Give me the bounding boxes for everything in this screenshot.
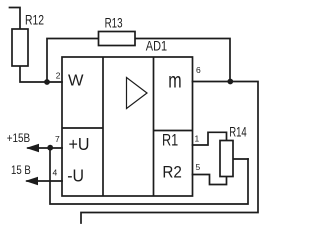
wire R12 bottom lead to node A bbox=[20, 66, 47, 82]
svg-text:-U: -U bbox=[67, 166, 84, 186]
wire +15V supply to pin 7 bbox=[28, 147, 62, 149]
divider W / +U box bbox=[62, 127, 103, 129]
svg-text:5: 5 bbox=[196, 162, 201, 172]
wire +15V node down and along bottom to R14 wiper bbox=[50, 148, 248, 204]
op-amp U1 AD1 outer box bbox=[62, 57, 193, 196]
svg-text:R2: R2 bbox=[162, 163, 182, 182]
node output junction dot bbox=[227, 79, 233, 85]
op-amp left column divider bbox=[102, 57, 104, 196]
divider m / R1 box bbox=[154, 130, 193, 132]
terminal arrow +15V bbox=[26, 144, 39, 152]
wire node A to pin 2 bbox=[47, 81, 62, 83]
svg-text:AD1: AD1 bbox=[146, 39, 167, 54]
svg-text:1: 1 bbox=[195, 134, 200, 144]
resistor R13 bbox=[99, 32, 136, 46]
svg-text:6: 6 bbox=[196, 65, 201, 75]
svg-text:m: m bbox=[168, 70, 181, 93]
svg-text:R1: R1 bbox=[162, 132, 178, 150]
op-amp right column divider bbox=[153, 57, 155, 196]
wire -15V supply to pin 4 bbox=[27, 180, 62, 182]
node +15V junction dot bbox=[47, 145, 53, 151]
svg-text:15 В: 15 В bbox=[11, 165, 31, 177]
node A junction dot bbox=[44, 79, 50, 85]
resistor R14 bbox=[220, 141, 233, 177]
wire R12 top input stub bbox=[10, 8, 21, 30]
wire R14 wiper tap bbox=[233, 158, 248, 160]
svg-text:7: 7 bbox=[55, 134, 60, 144]
resistor R12 bbox=[12, 29, 28, 66]
wire node A up to R13 left bbox=[47, 39, 99, 83]
wire pin 1 to R14 top bbox=[193, 132, 227, 145]
svg-text:4: 4 bbox=[53, 167, 58, 177]
terminal arrow -15V bbox=[25, 177, 38, 185]
svg-text:W: W bbox=[68, 72, 84, 89]
svg-text:R12: R12 bbox=[25, 12, 44, 28]
svg-text:R14: R14 bbox=[229, 125, 247, 140]
wire R13 right to output node bbox=[135, 39, 230, 82]
svg-text:+U: +U bbox=[69, 134, 90, 154]
svg-text:+15В: +15В bbox=[7, 133, 31, 145]
wire pin 5 to R14 bottom bbox=[193, 175, 227, 185]
wire pin 6 output to right rail bbox=[81, 82, 258, 224]
svg-text:R13: R13 bbox=[105, 16, 123, 31]
op-amp triangle symbol bbox=[127, 78, 148, 109]
svg-text:2: 2 bbox=[56, 70, 61, 80]
